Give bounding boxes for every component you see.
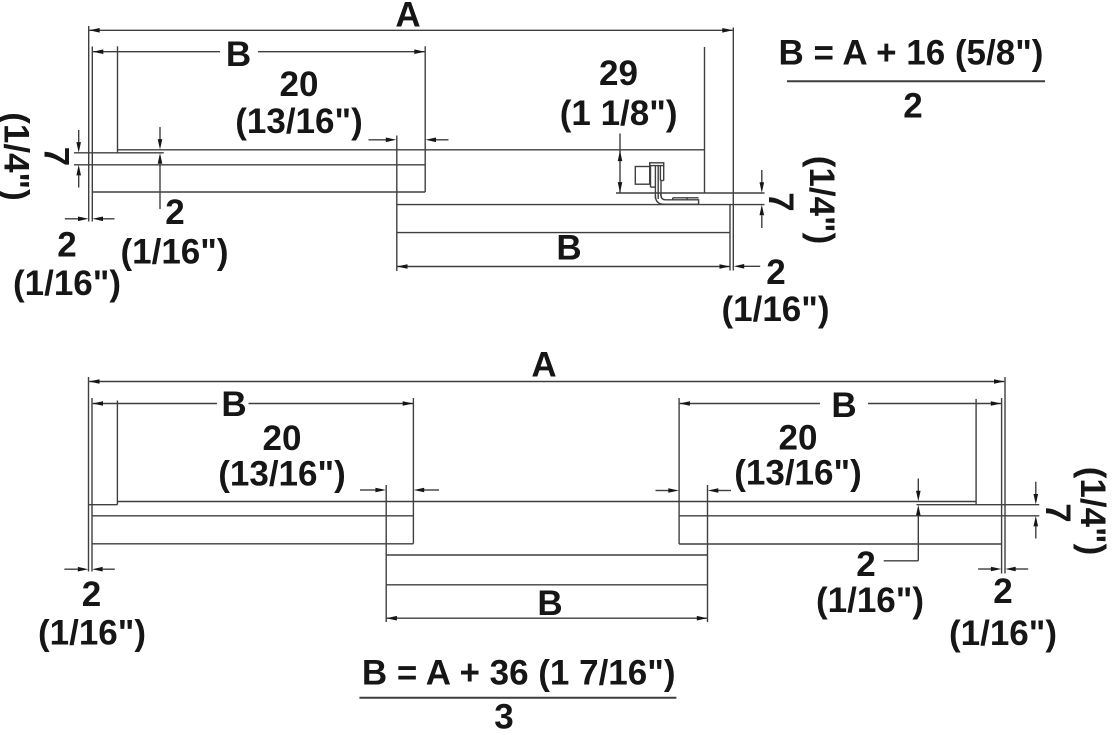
svg-text:B: B: [556, 229, 581, 268]
svg-text:7: 7: [761, 192, 800, 211]
bottom diagram: right wall 2mm dimension arrows: [978, 567, 1028, 572]
svg-text:2: 2: [993, 572, 1012, 611]
svg-text:7: 7: [1038, 503, 1077, 522]
bottom diagram: right 7mm dimension arrows: [1034, 482, 1039, 539]
bottom diagram: label (1/4") right rotated: [1073, 467, 1112, 556]
svg-text:(13/16"): (13/16"): [734, 454, 862, 493]
svg-text:B: B: [537, 584, 562, 623]
top diagram: bracket inner strip: [658, 166, 661, 199]
bottom diagram: rail lip right end edge: [975, 399, 977, 505]
bottom diagram: formula numerator B = A + 36 (1 7/16"): [362, 653, 676, 692]
svg-text:29: 29: [599, 54, 638, 93]
top diagram: lower track left end edge: [396, 136, 398, 272]
bottom diagram: label B right: [831, 386, 856, 425]
svg-text:B: B: [831, 386, 856, 425]
bottom diagram: left 20mm dimension arrows: [360, 488, 439, 493]
svg-text:2: 2: [82, 575, 101, 614]
top diagram: bracket vertical plate left: [651, 166, 656, 199]
bottom diagram: rail lip right underside line: [917, 504, 1040, 506]
svg-text:(1/4"): (1/4"): [0, 112, 36, 201]
top diagram: label (1/4") right rotated: [802, 156, 841, 245]
bottom diagram: label 2 lip: [856, 545, 875, 584]
bottom diagram: label (1/16") left wall: [38, 614, 146, 653]
bottom diagram: left track bottom line: [92, 543, 413, 545]
bottom diagram: label 20 right: [779, 419, 818, 458]
bottom diagram: label (13/16") left: [218, 455, 346, 494]
bottom diagram: center track bottom line: [386, 584, 707, 586]
svg-text:(1/16"): (1/16"): [13, 264, 121, 303]
top diagram: formula fraction bar: [787, 80, 1045, 82]
top diagram: label 2 left wall: [57, 226, 76, 265]
top diagram: left wall inner line: [91, 47, 93, 222]
svg-text:(1/16"): (1/16"): [120, 233, 228, 272]
bottom diagram: left wall 2mm dimension arrows: [64, 567, 114, 572]
bottom diagram: label 7 right rotated: [1038, 503, 1077, 522]
top diagram: dimension line A: [89, 28, 733, 33]
bottom diagram: right track bottom line: [679, 543, 1002, 545]
top diagram: rail lip left end edge: [117, 46, 119, 153]
top diagram: formula numerator B = A + 16 (5/8"): [779, 33, 1044, 72]
top diagram: label B top: [226, 35, 251, 74]
top diagram: formula denominator 2: [903, 87, 922, 126]
top diagram: left 7mm dimension arrows: [76, 130, 81, 188]
top diagram: right wall outer line: [732, 28, 734, 271]
bottom diagram: label A: [531, 345, 556, 384]
top diagram: left wall 2mm dimension arrows: [65, 217, 115, 222]
bottom diagram: label (1/16") lip: [816, 581, 924, 620]
top diagram: left wall outer line: [88, 26, 90, 222]
top diagram: label 7 right rotated: [761, 192, 800, 211]
top diagram: rail lip top line: [118, 149, 705, 151]
svg-text:(1/4"): (1/4"): [802, 156, 841, 245]
bottom diagram: left wall inner line: [91, 398, 93, 572]
top diagram: label B bottom: [556, 229, 581, 268]
top diagram: lip 2mm dimension arrows: [158, 127, 163, 209]
bottom diagram: lip 2mm dimension leader: [884, 479, 921, 561]
top diagram: label (1 1/8"): [560, 94, 678, 133]
svg-text:7: 7: [37, 147, 76, 166]
top diagram: label (1/16") left wall: [13, 264, 121, 303]
bottom diagram: left track top line: [92, 515, 413, 517]
top diagram: upper track top line: [74, 164, 425, 166]
svg-text:2: 2: [57, 226, 76, 265]
svg-text:A: A: [531, 345, 556, 384]
bottom diagram: left track right end edge: [412, 398, 414, 544]
svg-text:(1/16"): (1/16"): [816, 581, 924, 620]
top diagram: label (1/16") lip: [120, 233, 228, 272]
svg-text:B = A + 36 (1 7/16"): B = A + 36 (1 7/16"): [362, 653, 676, 692]
bottom diagram: right wall outer line: [1004, 377, 1006, 574]
top diagram: bracket screw head: [635, 167, 649, 185]
bottom diagram: right track top line: [679, 515, 1039, 517]
bottom diagram: formula fraction bar: [359, 697, 676, 699]
top diagram: label 29: [599, 54, 638, 93]
top diagram: label (13/16"): [235, 102, 363, 141]
svg-text:2: 2: [903, 87, 922, 126]
svg-text:3: 3: [494, 698, 513, 731]
top diagram: 29mm dimension leader: [618, 134, 623, 193]
bottom diagram: label 2 right wall: [993, 572, 1012, 611]
top diagram: dimension line B top: [93, 49, 425, 54]
top diagram: label (1/4") left rotated: [0, 112, 36, 201]
svg-text:20: 20: [263, 419, 302, 458]
bottom diagram: right wall inner line: [1001, 398, 1003, 574]
top diagram: bracket foot tabs: [673, 198, 699, 200]
top diagram: lower track bottom line: [397, 232, 730, 234]
bottom diagram: label 20 left: [263, 419, 302, 458]
top diagram: upper track bottom line: [92, 191, 425, 193]
bottom diagram: label B bottom: [537, 584, 562, 623]
top diagram: rail lip right end edge: [704, 47, 706, 193]
top diagram: right 7mm dimension arrows: [760, 170, 765, 228]
top diagram: rail lip underside line: [74, 152, 164, 154]
svg-text:(1/4"): (1/4"): [1073, 467, 1112, 556]
svg-text:(13/16"): (13/16"): [218, 455, 346, 494]
top diagram: dimension line B bottom: [397, 264, 730, 269]
top diagram: lower track top line: [397, 204, 765, 206]
svg-text:(1/16"): (1/16"): [38, 614, 146, 653]
bottom diagram: rail lip top line: [117, 501, 976, 503]
bottom diagram: formula denominator 3: [494, 698, 513, 735]
bottom diagram: right 20mm dimension arrows: [656, 488, 732, 493]
top diagram: label 2 right wall: [766, 253, 785, 292]
top diagram: bracket L foot: [655, 194, 698, 204]
top diagram: label 20: [280, 65, 319, 104]
svg-text:B: B: [226, 35, 251, 74]
bottom diagram: center track left end edge: [385, 485, 387, 622]
bottom diagram: label (13/16") right: [734, 454, 862, 493]
svg-text:2: 2: [766, 253, 785, 292]
bottom diagram: dimension line A: [89, 379, 1005, 384]
svg-text:20: 20: [280, 65, 319, 104]
top diagram: bracket vertical plate right: [660, 166, 663, 181]
svg-text:2: 2: [165, 193, 184, 232]
top diagram: right wall 2mm dimension arrow: [734, 264, 761, 269]
top diagram: label 7 left rotated: [37, 147, 76, 166]
svg-text:(1/16"): (1/16"): [949, 614, 1057, 653]
svg-text:(1/16"): (1/16"): [721, 290, 829, 329]
svg-text:B = A + 16 (5/8"): B = A + 16 (5/8"): [779, 33, 1044, 72]
top diagram: 20mm dimension arrows: [369, 138, 449, 143]
top diagram: label A: [395, 0, 420, 35]
svg-text:(13/16"): (13/16"): [235, 102, 363, 141]
bottom diagram: dimension line B bottom: [386, 616, 707, 621]
svg-text:B: B: [221, 385, 246, 424]
bottom diagram: label 2 left wall: [82, 575, 101, 614]
bottom diagram: right track left end edge: [678, 398, 680, 544]
bottom diagram: label (1/16") right wall: [949, 614, 1057, 653]
bottom diagram: rail lip left end edge: [116, 401, 118, 505]
bottom diagram: label B left: [221, 385, 246, 424]
top diagram: upper track right end edge: [424, 46, 426, 192]
svg-text:(1 1/8"): (1 1/8"): [560, 94, 678, 133]
bottom diagram: left wall outer line: [88, 377, 90, 572]
bottom diagram: center track right end edge: [707, 485, 709, 622]
svg-text:A: A: [395, 0, 420, 35]
bottom diagram: center track top line: [386, 554, 707, 556]
svg-text:2: 2: [856, 545, 875, 584]
svg-text:20: 20: [779, 419, 818, 458]
top diagram: label 2 lip: [165, 193, 184, 232]
top diagram: bracket top tab: [650, 163, 664, 166]
top diagram: label (1/16") right wall: [721, 290, 829, 329]
bottom diagram: rail lip left underside line: [89, 504, 118, 506]
top diagram: lower track lip underside line: [616, 192, 765, 194]
bottom diagram: dimension line B left: [93, 401, 414, 406]
top diagram: right wall inner line: [729, 205, 731, 271]
bottom diagram: dimension line B right: [679, 401, 1001, 406]
